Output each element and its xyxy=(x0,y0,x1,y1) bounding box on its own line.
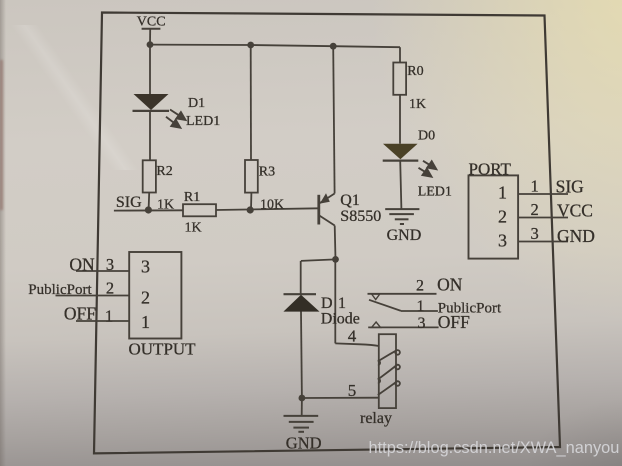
svg-text:GND: GND xyxy=(557,226,595,246)
svg-text:1: 1 xyxy=(530,177,538,196)
svg-text:1: 1 xyxy=(105,307,113,326)
svg-text:1: 1 xyxy=(141,312,150,332)
svg-text:relay: relay xyxy=(360,410,392,427)
svg-text:ON: ON xyxy=(69,254,95,274)
svg-text:D: D xyxy=(321,295,333,312)
svg-text:10K: 10K xyxy=(260,198,284,213)
svg-text:R0: R0 xyxy=(407,64,423,79)
svg-text:3: 3 xyxy=(106,255,114,274)
svg-text:2: 2 xyxy=(141,288,150,308)
svg-text:Q1: Q1 xyxy=(340,192,360,209)
svg-text:1: 1 xyxy=(417,298,425,315)
svg-text:2: 2 xyxy=(416,278,424,295)
svg-text:2: 2 xyxy=(498,207,507,227)
svg-text:GND: GND xyxy=(387,227,422,244)
svg-text:2: 2 xyxy=(106,279,114,298)
svg-text:4: 4 xyxy=(348,326,357,345)
svg-text:LED1: LED1 xyxy=(186,114,220,129)
svg-text:PublicPort: PublicPort xyxy=(28,282,92,298)
svg-text:GND: GND xyxy=(286,434,322,453)
svg-text:R2: R2 xyxy=(156,164,172,179)
svg-text:SIG: SIG xyxy=(116,194,142,211)
svg-text:1: 1 xyxy=(338,295,346,312)
svg-text:VCC: VCC xyxy=(137,15,166,30)
svg-text:PORT: PORT xyxy=(469,160,512,179)
svg-text:Diode: Diode xyxy=(321,311,360,328)
svg-text:1: 1 xyxy=(498,183,507,203)
svg-text:D1: D1 xyxy=(188,96,205,111)
svg-text:VCC: VCC xyxy=(557,201,593,221)
svg-text:SIG: SIG xyxy=(556,177,585,197)
svg-text:D0: D0 xyxy=(418,129,435,144)
svg-text:3: 3 xyxy=(141,257,150,277)
svg-text:5: 5 xyxy=(348,381,357,400)
svg-text:1K: 1K xyxy=(409,97,426,112)
svg-text:3: 3 xyxy=(418,315,426,332)
svg-text:R1: R1 xyxy=(184,190,200,205)
svg-text:OUTPUT: OUTPUT xyxy=(129,340,197,359)
svg-text:ON: ON xyxy=(437,274,463,294)
svg-text:OFF: OFF xyxy=(438,312,470,332)
svg-text:S8550: S8550 xyxy=(340,208,381,225)
svg-text:1K: 1K xyxy=(157,198,174,213)
svg-text:2: 2 xyxy=(530,200,538,219)
svg-text:3: 3 xyxy=(498,231,507,251)
svg-text:R3: R3 xyxy=(259,165,275,180)
svg-text:https://blog.csdn.net/XWA_nany: https://blog.csdn.net/XWA_nanyou xyxy=(369,439,620,457)
svg-text:OFF: OFF xyxy=(64,304,96,324)
svg-text:LED1: LED1 xyxy=(418,185,452,200)
svg-text:3: 3 xyxy=(530,224,538,243)
svg-text:1K: 1K xyxy=(185,221,202,236)
